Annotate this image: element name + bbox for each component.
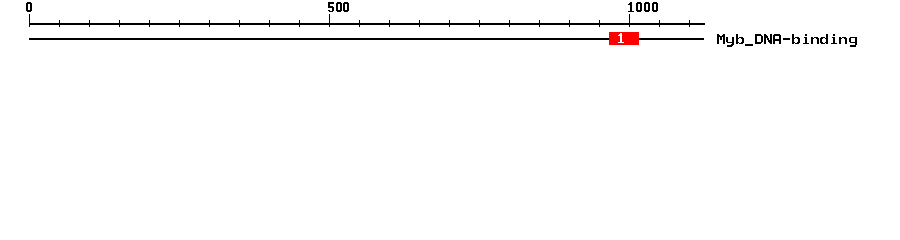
- ruler major tick 0: [29, 14, 30, 27]
- domain box 1 (red): [609, 32, 639, 45]
- ruler major tick 500: [329, 14, 330, 27]
- ruler major tick 1000: [629, 14, 630, 27]
- domain label Myb_DNA-binding: [717, 34, 857, 47]
- ruler label 0: [26, 2, 32, 12]
- ruler axis line: [29, 23, 705, 25]
- sequence line: [29, 38, 704, 40]
- domain number 1: [618, 33, 624, 43]
- ruler minor ticks: [59, 20, 60, 27]
- ruler label 500: [328, 2, 349, 12]
- ruler label 1000: [628, 2, 658, 12]
